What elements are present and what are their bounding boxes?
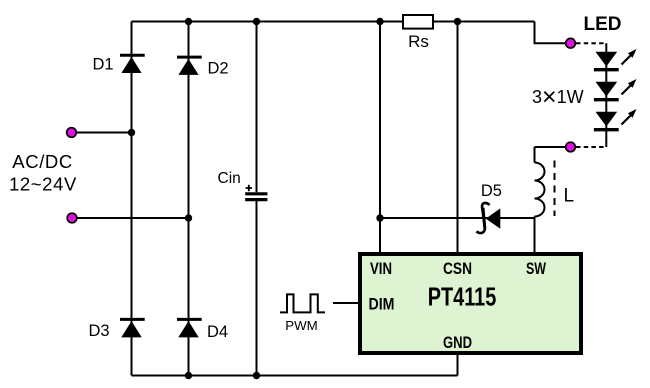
diode D5 (schottky) — [476, 203, 500, 233]
wire mid-left branch x=188.5 (D2/D4 branch) — [188, 22, 190, 376]
LED 2 arrow — [622, 79, 637, 95]
wire top right bend to LED+ — [535, 22, 570, 44]
inductor L coil — [535, 163, 545, 217]
diode D3 — [120, 319, 145, 337]
inductor core dashed line — [554, 161, 556, 217]
svg-text:SW: SW — [526, 259, 547, 278]
svg-text:CSN: CSN — [443, 259, 472, 278]
LED 3 arrow — [622, 109, 637, 125]
svg-text:D2: D2 — [208, 60, 229, 78]
IC U1 PT4115 box — [360, 254, 581, 353]
svg-text:D1: D1 — [93, 56, 114, 74]
svg-text:AC/DC: AC/DC — [12, 151, 73, 172]
svg-text:D3: D3 — [89, 322, 110, 340]
wire left branch x=131.5 (D1/D3 branch) — [131, 22, 133, 376]
wire D5 horizontal (VIN to SW) — [380, 217, 535, 219]
diode D2 — [177, 57, 202, 75]
wire GND vertical — [457, 355, 459, 376]
PWM square wave symbol — [280, 294, 325, 312]
svg-text:LED: LED — [584, 14, 622, 35]
junction dot AC top / D1 branch — [128, 129, 135, 136]
wire AC input bottom — [72, 217, 189, 219]
svg-text:D4: D4 — [207, 323, 228, 341]
svg-text:12~24V: 12~24V — [9, 174, 77, 195]
junction dot bottom rail Cin — [253, 372, 260, 379]
wire SW below inductor — [534, 217, 536, 254]
wire LED+ dashed link — [576, 42, 606, 44]
junction dot top rail D2 — [185, 18, 192, 25]
wire Cin branch upper — [256, 22, 258, 193]
wire SW vertical / inductor lead — [534, 147, 536, 163]
junction dot VIN-D5 — [376, 214, 383, 221]
diode D4 — [177, 319, 202, 337]
LED 3 — [594, 112, 619, 130]
junction dot top rail VIN — [376, 18, 383, 25]
wire LED- dashed link — [576, 146, 606, 148]
svg-text:GND: GND — [443, 333, 472, 352]
Cin plus sign — [246, 185, 252, 191]
LED 2 — [594, 82, 619, 100]
junction dot top rail CSN — [454, 18, 461, 25]
capacitor Cin plates — [245, 194, 267, 200]
svg-text:VIN: VIN — [370, 259, 392, 278]
LED 1 arrow — [622, 49, 637, 65]
wire bottom rail — [132, 375, 458, 377]
wire CSN vertical — [457, 22, 459, 254]
wire DIM — [333, 302, 358, 304]
svg-text:L: L — [564, 186, 575, 207]
svg-text:Rs: Rs — [408, 32, 429, 51]
junction dot AC bottom / D2 branch — [185, 214, 192, 221]
svg-text:3×1W: 3×1W — [532, 83, 584, 111]
resistor Rs — [403, 15, 433, 29]
junction dot bottom rail D4 — [185, 372, 192, 379]
LED 1 — [594, 52, 619, 70]
svg-text:D5: D5 — [481, 182, 502, 200]
terminal LED+ — [566, 38, 576, 48]
terminal AC bottom — [67, 213, 77, 223]
wire top rail — [132, 21, 535, 23]
svg-text:PWM: PWM — [285, 319, 318, 333]
wire VIN vertical — [379, 22, 381, 254]
terminal AC top — [67, 128, 77, 138]
wire Cin branch lower — [256, 201, 258, 376]
svg-text:DIM: DIM — [369, 295, 395, 314]
svg-text:PT4115: PT4115 — [428, 284, 497, 312]
wire LED string vertical — [605, 43, 607, 147]
wire AC input top — [72, 132, 132, 134]
terminal LED- — [566, 142, 576, 152]
diode D1 — [120, 55, 145, 73]
junction dot top rail Cin — [253, 18, 260, 25]
svg-text:Cin: Cin — [218, 170, 241, 187]
wire LED- to inductor — [535, 146, 570, 148]
